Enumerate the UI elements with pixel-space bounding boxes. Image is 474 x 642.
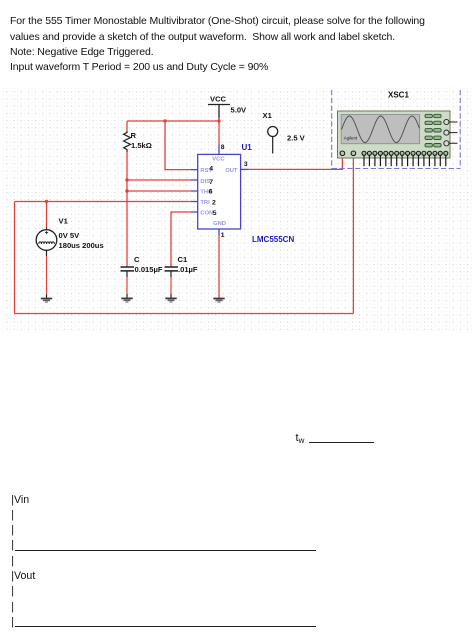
svg-text:0V 5V: 0V 5V: [59, 231, 81, 240]
wire RST: [165, 121, 191, 170]
problem statement text: [10, 14, 425, 76]
svg-text:1: 1: [221, 232, 225, 239]
junction THR: [125, 189, 128, 192]
Vin/Vout sketch area: [11, 494, 29, 506]
svg-text:5.0V: 5.0V: [231, 106, 248, 115]
svg-text:2: 2: [212, 199, 216, 206]
source V1: [36, 202, 103, 299]
wire TRI: [15, 201, 191, 203]
svg-text:Agilent: Agilent: [344, 136, 358, 141]
oscilloscope pin row: [362, 151, 448, 166]
wire R to C: [126, 180, 128, 267]
junction at VCC: [217, 119, 220, 122]
wire loop bottom: [15, 313, 354, 315]
svg-text:GND: GND: [213, 221, 226, 227]
svg-text:V1: V1: [59, 217, 69, 226]
wire to pin 8: [218, 121, 220, 145]
svg-text:VCC: VCC: [212, 157, 225, 163]
oscilloscope channel terminals: [340, 151, 356, 156]
wire loop right to scope: [352, 156, 354, 314]
svg-text:8: 8: [221, 144, 225, 151]
probe X1: [263, 111, 306, 154]
svg-text:OUT: OUT: [225, 168, 238, 174]
pin stubs left: [191, 170, 198, 212]
capacitor C1: [165, 255, 198, 298]
wire VCC rail: [127, 120, 219, 122]
capacitor C: [121, 255, 163, 298]
svg-text:4: 4: [209, 166, 213, 173]
junction RST branch: [163, 119, 166, 122]
svg-text:CON: CON: [200, 211, 213, 217]
junction DIS: [125, 178, 128, 181]
svg-text:7: 7: [209, 179, 213, 186]
wire DIS: [127, 179, 191, 181]
svg-text:R: R: [131, 131, 137, 140]
svg-text:5: 5: [213, 210, 217, 217]
svg-text:2.5 V: 2.5 V: [287, 133, 306, 142]
pin numbers: [209, 144, 248, 239]
svg-text:0.015µF: 0.015µF: [135, 265, 163, 274]
IC U1 LMC555CN: [198, 154, 241, 229]
svg-text:LMC555CN: LMC555CN: [252, 235, 294, 244]
svg-text:6: 6: [209, 189, 213, 196]
ground (pin1): [213, 299, 224, 303]
pin 8 stub: [218, 145, 220, 155]
svg-text:X1: X1: [263, 111, 273, 120]
svg-text:VCC: VCC: [210, 95, 227, 104]
svg-text:U1: U1: [242, 143, 253, 152]
ground (V1): [41, 299, 52, 303]
svg-text:XSC1: XSC1: [388, 90, 409, 99]
svg-text:1.5kΩ: 1.5kΩ: [131, 141, 152, 150]
svg-text:.01µF: .01µF: [178, 265, 198, 274]
power VCC: [208, 95, 247, 119]
svg-text:180us 200us: 180us 200us: [59, 241, 104, 250]
oscilloscope XSC1 body: [338, 111, 458, 158]
wire pin1 to ground: [218, 236, 220, 298]
wire loop left: [14, 202, 16, 314]
ground (C): [121, 298, 132, 302]
wire THR: [127, 190, 191, 192]
wire OUT to scope: [249, 156, 343, 170]
svg-text:C: C: [134, 255, 140, 264]
junction V1: [45, 200, 48, 203]
tw blank: [296, 432, 305, 445]
ground (C1): [165, 298, 176, 302]
pin 1 stub: [218, 229, 220, 236]
pin 3 stub: [241, 168, 249, 170]
wire VCC stem: [218, 118, 220, 121]
wire CON: [171, 212, 191, 267]
svg-text:3: 3: [244, 161, 248, 168]
oscilloscope XSC1 selection box: [332, 90, 461, 169]
svg-text:C1: C1: [178, 255, 188, 264]
svg-text:TRI: TRI: [200, 200, 210, 206]
resistor R: [124, 121, 152, 180]
